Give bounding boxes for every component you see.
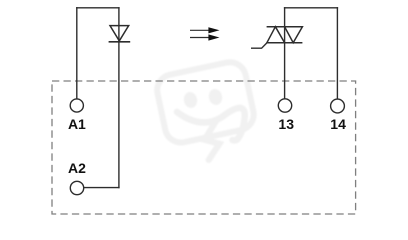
optocoupler arrow 2 (190, 34, 220, 40)
wire input loop top horizontal (76, 7, 120, 9)
svg-text:A1: A1 (68, 116, 86, 132)
svg-text:A2: A2 (68, 160, 86, 176)
terminal 14 (331, 99, 345, 113)
optocoupler arrow 1 (190, 27, 220, 33)
terminal A1 (70, 99, 83, 112)
wire from terminal A1 up to input loop corner (76, 7, 78, 99)
svg-text:13: 13 (278, 116, 294, 132)
triac Q1 top bar (MT2) (267, 26, 303, 28)
diode D1 anode triangle (110, 26, 129, 41)
dashed enclosure border (52, 81, 356, 214)
triac Q1 left triangle (267, 27, 285, 43)
terminal 13 (278, 99, 291, 112)
terminal A2 (70, 181, 83, 194)
wire from terminal 13 up through triac to output loop corner (284, 7, 286, 99)
triac Q1 gate lead (251, 43, 267, 49)
wire horizontal from terminal A2 to diode branch (84, 187, 120, 189)
triac Q1 right triangle (285, 27, 303, 43)
wire output loop top horizontal (284, 7, 338, 9)
svg-text:14: 14 (330, 116, 346, 132)
wire from output loop corner down to terminal 14 (336, 7, 338, 99)
wire diode branch vertical down to A2 level (118, 7, 120, 188)
diode D1 cathode bar (109, 41, 131, 43)
triac Q1 bottom bar (MT1) (267, 42, 302, 44)
